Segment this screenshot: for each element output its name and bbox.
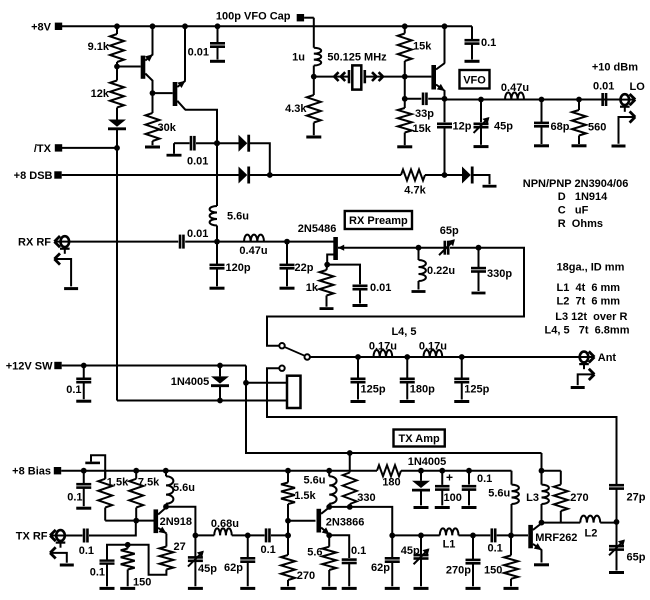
svg-text:+12V SW: +12V SW xyxy=(6,361,53,373)
svg-text:C uF: C uF xyxy=(558,205,589,217)
svg-text:30k: 30k xyxy=(158,122,177,134)
svg-text:150: 150 xyxy=(484,565,502,577)
svg-text:TX RF: TX RF xyxy=(16,530,48,542)
svg-text:560: 560 xyxy=(588,122,606,134)
svg-text:0.17u: 0.17u xyxy=(419,341,447,353)
svg-text:270: 270 xyxy=(570,492,588,504)
svg-text:5.6u: 5.6u xyxy=(173,482,195,494)
svg-text:100: 100 xyxy=(444,492,462,504)
svg-text:0.1: 0.1 xyxy=(66,384,81,396)
svg-text:TX Amp: TX Amp xyxy=(399,433,440,445)
svg-text:12k: 12k xyxy=(91,88,110,100)
svg-text:0.01: 0.01 xyxy=(187,156,208,168)
svg-text:+10 dBm: +10 dBm xyxy=(592,62,638,74)
svg-text:4.7k: 4.7k xyxy=(404,185,426,197)
svg-text:RX Preamp: RX Preamp xyxy=(349,215,408,227)
svg-text:1.5k: 1.5k xyxy=(107,476,129,488)
svg-text:15k: 15k xyxy=(413,123,432,135)
svg-text:9.1k: 9.1k xyxy=(88,41,110,53)
svg-text:0.1: 0.1 xyxy=(90,567,105,579)
svg-text:1N4005: 1N4005 xyxy=(171,376,210,388)
svg-text:L2 7t 6 mm: L2 7t 6 mm xyxy=(557,295,621,307)
svg-text:L4, 5 7t 6.8mm: L4, 5 7t 6.8mm xyxy=(545,325,630,337)
svg-text:RX RF: RX RF xyxy=(18,237,51,249)
svg-text:NPN/PNP 2N3904/06: NPN/PNP 2N3904/06 xyxy=(523,178,629,190)
svg-text:270p: 270p xyxy=(446,565,471,577)
svg-text:R Ohms: R Ohms xyxy=(558,218,603,230)
svg-text:4.3k: 4.3k xyxy=(285,103,307,115)
svg-text:L1: L1 xyxy=(443,538,456,550)
svg-text:1u: 1u xyxy=(292,52,305,64)
svg-text:2N918: 2N918 xyxy=(160,516,192,528)
svg-text:L2: L2 xyxy=(584,528,597,540)
svg-text:VFO: VFO xyxy=(463,74,486,86)
svg-text:0.1: 0.1 xyxy=(481,37,496,49)
svg-text:0.1: 0.1 xyxy=(79,545,94,557)
svg-text:0.47u: 0.47u xyxy=(239,245,267,257)
svg-text:2N5486: 2N5486 xyxy=(298,223,337,235)
svg-text:330: 330 xyxy=(357,492,375,504)
svg-text:270: 270 xyxy=(297,570,315,582)
svg-text:27p: 27p xyxy=(627,492,646,504)
svg-text:62p: 62p xyxy=(224,562,243,574)
svg-text:125p: 125p xyxy=(361,384,386,396)
svg-text:330p: 330p xyxy=(487,268,512,280)
svg-text:Ant: Ant xyxy=(598,352,617,364)
svg-text:0.01: 0.01 xyxy=(188,47,209,59)
svg-text:L3 12t over R: L3 12t over R xyxy=(555,311,627,323)
svg-text:0.01: 0.01 xyxy=(370,282,391,294)
svg-text:0.01: 0.01 xyxy=(593,81,614,93)
svg-text:62p: 62p xyxy=(371,562,390,574)
svg-text:0.1: 0.1 xyxy=(488,543,503,555)
svg-text:+8 DSB: +8 DSB xyxy=(14,170,53,182)
svg-text:LO: LO xyxy=(630,81,646,93)
svg-text:120p: 120p xyxy=(226,262,251,274)
svg-text:0.68u: 0.68u xyxy=(211,518,239,530)
svg-text:5.6u: 5.6u xyxy=(303,474,325,486)
svg-text:15k: 15k xyxy=(413,41,432,53)
svg-text:18ga., ID mm: 18ga., ID mm xyxy=(557,262,625,274)
svg-text:/TX: /TX xyxy=(34,143,52,155)
svg-text:MRF262: MRF262 xyxy=(535,532,577,544)
svg-text:27: 27 xyxy=(174,541,186,553)
svg-text:12p: 12p xyxy=(453,121,472,133)
svg-text:1.5k: 1.5k xyxy=(294,490,316,502)
svg-text:50.125 MHz: 50.125 MHz xyxy=(327,52,387,64)
svg-text:+8 Bias: +8 Bias xyxy=(12,466,51,478)
svg-text:L4, 5: L4, 5 xyxy=(391,326,416,338)
svg-text:5.6u: 5.6u xyxy=(227,211,249,223)
svg-text:0.22u: 0.22u xyxy=(427,265,455,277)
svg-text:68p: 68p xyxy=(551,121,570,133)
svg-text:0.1: 0.1 xyxy=(67,491,82,503)
svg-text:1k: 1k xyxy=(306,282,319,294)
svg-text:125p: 125p xyxy=(464,384,489,396)
svg-text:100p VFO Cap: 100p VFO Cap xyxy=(216,11,291,23)
svg-text:45p: 45p xyxy=(494,121,513,133)
svg-text:5.6: 5.6 xyxy=(307,546,322,558)
svg-text:0.47u: 0.47u xyxy=(501,82,529,94)
svg-text:1N4005: 1N4005 xyxy=(408,456,447,468)
svg-text:65p: 65p xyxy=(627,552,646,564)
svg-text:5.6u: 5.6u xyxy=(488,488,510,500)
svg-text:L3: L3 xyxy=(526,492,539,504)
svg-text:65p: 65p xyxy=(440,225,459,237)
svg-text:22p: 22p xyxy=(295,262,314,274)
svg-text:2N3866: 2N3866 xyxy=(326,516,365,528)
svg-text:45p: 45p xyxy=(401,545,420,557)
svg-text:33p: 33p xyxy=(415,108,434,120)
svg-text:+8V: +8V xyxy=(31,21,52,33)
svg-text:45p: 45p xyxy=(198,563,217,575)
svg-text:0.1: 0.1 xyxy=(477,473,492,485)
svg-text:+: + xyxy=(446,471,453,485)
svg-text:0.17u: 0.17u xyxy=(369,341,397,353)
svg-text:L1 4t 6 mm: L1 4t 6 mm xyxy=(557,282,621,294)
svg-text:D 1N914: D 1N914 xyxy=(558,191,608,203)
svg-text:180: 180 xyxy=(382,477,400,489)
svg-text:7.5k: 7.5k xyxy=(138,476,160,488)
svg-text:0.01: 0.01 xyxy=(187,228,208,240)
svg-text:150: 150 xyxy=(133,577,151,589)
svg-text:0.1: 0.1 xyxy=(351,545,366,557)
svg-text:0.1: 0.1 xyxy=(261,544,276,556)
svg-text:180p: 180p xyxy=(410,384,435,396)
